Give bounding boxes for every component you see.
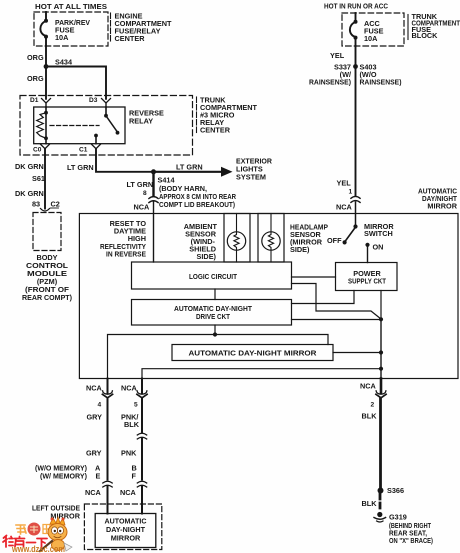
fuse ACC 10A	[350, 13, 356, 46]
svg-text:ORG: ORG	[27, 53, 44, 62]
wire fuse to relay D1	[45, 46, 47, 99]
label AUTOMATIC DAY/NIGHT MIRROR	[418, 187, 458, 211]
wire S414 drop to mirror pin 8	[152, 172, 154, 196]
power supply ckt box	[336, 263, 398, 291]
svg-text:83: 83	[32, 200, 40, 209]
svg-text:ORG: ORG	[27, 74, 44, 83]
svg-text:ON: ON	[373, 243, 384, 252]
automatic day-night mirror unit box	[95, 514, 156, 548]
wire node left to pin 4	[108, 335, 216, 379]
wire drive to right bus	[292, 319, 382, 321]
svg-text:E: E	[96, 472, 101, 481]
svg-text:1: 1	[349, 189, 353, 196]
wire mirror element to right bus	[333, 352, 381, 354]
svg-text:LT GRN: LT GRN	[67, 163, 94, 172]
wire pin1 to mirror switch	[355, 202, 357, 227]
svg-text:NCA: NCA	[120, 488, 137, 497]
svg-text:C0: C0	[33, 147, 42, 154]
svg-text:NCA: NCA	[121, 384, 138, 393]
watermark bubble logo	[16, 523, 53, 536]
svg-text:GRY: GRY	[87, 413, 103, 422]
svg-text:IN REVERSE: IN REVERSE	[106, 250, 146, 259]
svg-text:S61: S61	[32, 174, 45, 183]
svg-text:GRY: GRY	[86, 449, 102, 458]
svg-text:C2: C2	[51, 200, 60, 209]
svg-text:LT GRN: LT GRN	[127, 180, 154, 189]
svg-text:2: 2	[371, 402, 375, 409]
wire logic to power supply	[292, 276, 336, 278]
wire C1 to S414	[96, 149, 154, 172]
svg-text:HOT IN RUN OR ACC: HOT IN RUN OR ACC	[324, 2, 389, 11]
node	[379, 317, 383, 321]
connector pair on pin 5 wire	[137, 481, 146, 483]
connector at mirror pin 8	[149, 197, 158, 199]
wire pin 2 BLK	[379, 398, 382, 489]
ground G319	[377, 512, 382, 517]
trunk compartment fuse block box (dashed)	[342, 13, 404, 46]
svg-text:(W/ MEMORY): (W/ MEMORY)	[40, 472, 88, 481]
svg-text:8: 8	[143, 190, 147, 197]
pin 5 exit connector	[141, 379, 143, 394]
svg-text:REAR COMPT): REAR COMPT)	[22, 293, 73, 302]
left outside mirror box (dashed)	[84, 504, 161, 550]
svg-text:PNK: PNK	[121, 449, 137, 458]
wire pin 5 run	[142, 369, 381, 379]
connector at mirror pin 1	[351, 196, 360, 198]
svg-text:DK GRN: DK GRN	[15, 189, 44, 198]
svg-text:MIRROR: MIRROR	[111, 534, 141, 543]
svg-text:SIDE): SIDE)	[290, 245, 310, 254]
svg-text:SYSTEM: SYSTEM	[236, 173, 266, 182]
bracket ticks engine label	[110, 13, 112, 41]
wire logic lower to right bus	[292, 284, 382, 320]
wire ON to power supply	[367, 245, 369, 263]
label LEFT OUTSIDE MIRROR	[32, 504, 81, 521]
svg-text:NCA: NCA	[85, 488, 102, 497]
svg-text:D1: D1	[30, 97, 39, 104]
label (BEHIND RIGHT REAR SEAT, ON "X" BRACE)	[389, 521, 433, 545]
wire power supply to drive	[292, 291, 355, 304]
relay switch	[105, 107, 107, 114]
svg-text:RAINSENSE): RAINSENSE)	[309, 78, 352, 87]
label RESET TO DAYTIME HIGH REFLECTIVITY IN REVERSE	[100, 219, 146, 259]
svg-text:MIRROR: MIRROR	[427, 202, 457, 211]
wire pin 4 GRY	[107, 398, 109, 479]
svg-text:10A: 10A	[55, 33, 69, 42]
svg-text:CENTER: CENTER	[200, 126, 231, 135]
svg-text:ON "X" BRACE): ON "X" BRACE)	[389, 536, 433, 545]
pin 4 exit connector	[107, 379, 109, 394]
splice S434	[44, 64, 49, 69]
svg-text:NCA: NCA	[336, 203, 353, 212]
svg-text:NCA: NCA	[86, 384, 103, 393]
label AMBIENT SENSOR (WIND- SHIELD SIDE)	[184, 222, 218, 261]
label EXTERIOR LIGHTS SYSTEM	[236, 157, 273, 182]
wire pin 5 into mirror	[141, 487, 143, 514]
label ENGINE COMPARTMENT FUSE/RELAY CENTER	[115, 12, 173, 44]
mirror switch	[353, 224, 357, 228]
wire pin 5 PNK/BLK	[141, 398, 143, 432]
svg-text:RELAY: RELAY	[129, 117, 153, 126]
svg-text:DRIVE CKT: DRIVE CKT	[196, 312, 230, 321]
wire power supply down	[380, 291, 382, 320]
ambient sensor box	[224, 214, 250, 263]
headlamp sensor box	[258, 214, 284, 263]
svg-text:AUTOMATIC DAY-NIGHT MIRROR: AUTOMATIC DAY-NIGHT MIRROR	[189, 349, 318, 358]
svg-text:HOT AT ALL TIMES: HOT AT ALL TIMES	[35, 2, 107, 11]
label BODY CONTROL MODULE (PZM) (FRONT OF REAR COMPT)	[22, 253, 73, 302]
node drive bottom	[213, 332, 217, 336]
svg-text:MIRROR: MIRROR	[50, 512, 80, 521]
svg-text:YEL: YEL	[330, 51, 345, 60]
node	[379, 367, 383, 371]
svg-text:BLK: BLK	[124, 420, 140, 429]
svg-text:SWITCH: SWITCH	[364, 229, 393, 238]
splice S414	[151, 169, 156, 174]
logic circuit box	[132, 262, 292, 289]
pin 2 exit connector	[380, 379, 383, 394]
label PARK/REV FUSE 10A	[55, 18, 90, 42]
svg-text:DK GRN: DK GRN	[15, 162, 44, 171]
label ACC FUSE 10A	[364, 19, 384, 43]
svg-text:CENTER: CENTER	[115, 34, 146, 43]
in-line connector pin 5	[137, 433, 146, 435]
wire logic to drive	[214, 289, 216, 300]
svg-text:BLOCK: BLOCK	[412, 31, 439, 40]
svg-text:D3: D3	[89, 97, 98, 104]
automatic day-night drive ckt box	[132, 300, 292, 326]
label HEADLAMP SENSOR (MIRROR SIDE)	[290, 223, 328, 255]
relay link (dashed)	[50, 125, 99, 127]
wire pin 5 PNK	[141, 439, 143, 480]
splice S366	[378, 488, 384, 494]
bracket ticks trunk relay label	[196, 97, 198, 133]
wire S434 branch to D3	[46, 67, 106, 99]
wire ACC fuse down	[355, 46, 357, 196]
svg-text:RAINSENSE): RAINSENSE)	[360, 78, 403, 87]
label (W/O MEMORY) A / (W/ MEMORY) E	[35, 464, 88, 481]
wire BLK dashed to ground	[379, 494, 382, 512]
svg-text:LT GRN: LT GRN	[176, 163, 203, 172]
connector cup BCM	[41, 209, 50, 212]
svg-text:F: F	[132, 472, 137, 481]
wire drive bottom to node	[214, 325, 216, 335]
node	[379, 350, 383, 354]
watermark red brand glyphs	[3, 536, 47, 548]
wire C0 to BCM	[44, 149, 46, 209]
watermark mascot	[40, 517, 72, 551]
engine compartment fuse box (dashed)	[34, 12, 108, 46]
body control module box (dashed)	[33, 213, 61, 251]
automatic day-night mirror element box	[172, 345, 333, 361]
svg-text:NCA: NCA	[360, 382, 377, 391]
svg-text:S434: S434	[55, 58, 73, 67]
svg-text:5: 5	[134, 402, 138, 409]
wire node right to mirror element	[215, 335, 328, 345]
svg-text:4: 4	[98, 402, 102, 409]
wire S414 to exterior lights arrow	[154, 171, 223, 173]
svg-text:COMPT LID BREAKOUT): COMPT LID BREAKOUT)	[159, 200, 236, 209]
svg-text:C1: C1	[79, 147, 88, 154]
svg-text:YEL: YEL	[337, 179, 352, 188]
relay box	[34, 107, 125, 144]
wire right bus down to pin 2	[380, 319, 382, 379]
svg-text:OFF: OFF	[327, 236, 342, 245]
splice S337/S403	[353, 64, 358, 69]
svg-text:SIDE): SIDE)	[197, 252, 217, 261]
trunk compartment relay center box (dashed)	[20, 96, 193, 156]
connector pair on pin 4 wire	[103, 481, 112, 483]
svg-text:BLK: BLK	[362, 499, 378, 508]
wire pin 4 into mirror	[107, 487, 109, 514]
svg-text:10A: 10A	[364, 34, 378, 43]
label REVERSE RELAY	[129, 109, 164, 126]
svg-text:www.dzsc.com: www.dzsc.com	[11, 544, 65, 553]
label TRUNK COMPARTMENT #3 MICRO RELAY CENTER	[200, 96, 258, 135]
bracket ticks trunk fuse label	[407, 15, 409, 40]
label MIRROR SWITCH	[364, 222, 394, 238]
svg-text:S366: S366	[387, 486, 404, 495]
fuse PARK/REV 10A	[40, 12, 46, 46]
label (BODY HARN, APPROX 8 CM INTO REAR COMPT LID BREAKOUT)	[159, 184, 237, 209]
svg-text:SUPPLY CKT: SUPPLY CKT	[348, 277, 386, 286]
wire pin8 into logic circuit	[153, 202, 155, 262]
svg-text:NCA: NCA	[134, 203, 151, 212]
svg-text:LOGIC CIRCUIT: LOGIC CIRCUIT	[189, 272, 237, 281]
automatic day/night mirror big box	[79, 214, 458, 379]
svg-text:BLK: BLK	[362, 412, 378, 421]
label TRUNK COMPARTMENT FUSE BLOCK	[412, 12, 460, 40]
relay coil	[45, 107, 47, 144]
